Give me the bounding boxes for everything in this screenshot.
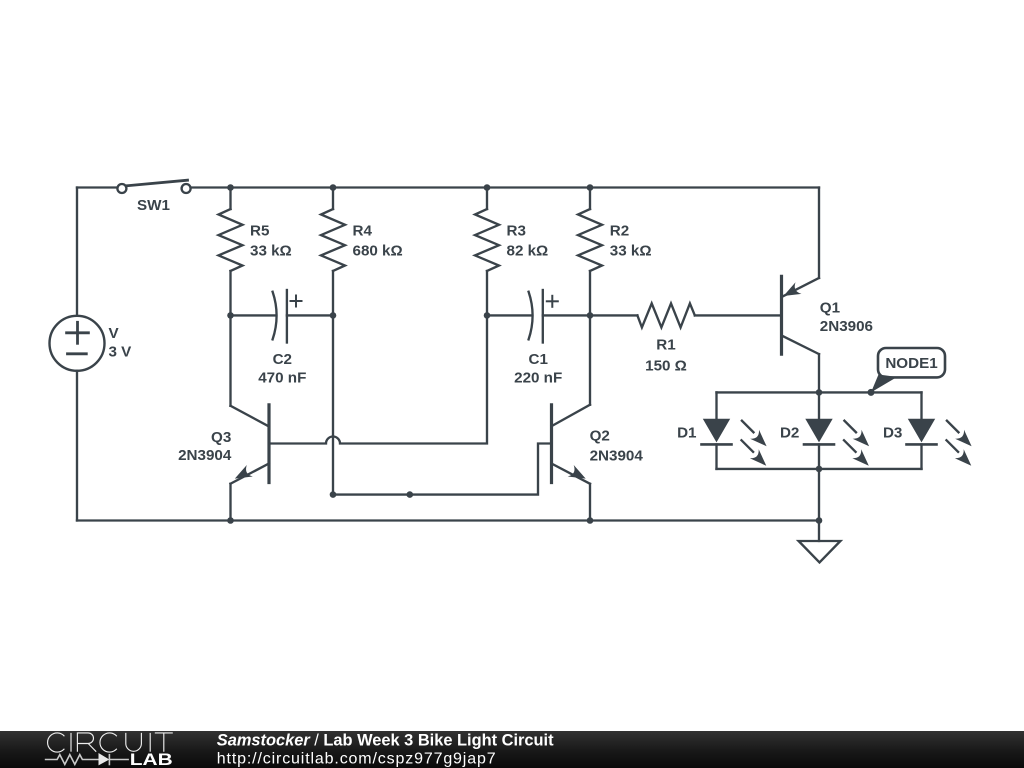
svg-text:2N3904: 2N3904 (590, 447, 644, 464)
junction C2/R4 node (330, 312, 337, 319)
junction Q2 base rail mid (407, 491, 414, 498)
svg-text:Q3: Q3 (211, 429, 231, 446)
wire left column below source (76, 371, 78, 521)
wire top rail right segment (191, 186, 819, 188)
svg-text:220 nF: 220 nF (514, 370, 562, 387)
logo CIRCUIT wordmark (48, 733, 173, 752)
node NODE1 anchor (868, 389, 875, 396)
svg-text:150 Ω: 150 Ω (645, 358, 687, 375)
svg-text:D1: D1 (677, 425, 697, 442)
wire left column above source (76, 188, 78, 316)
node NODE1 callout (871, 348, 945, 392)
junction R2 top (587, 184, 594, 191)
svg-text:33 kΩ: 33 kΩ (610, 242, 652, 259)
transistor Q2 (552, 315, 591, 520)
svg-text:C2: C2 (273, 351, 292, 368)
svg-text:470 nF: 470 nF (258, 370, 306, 387)
wire bottom rail (77, 519, 819, 521)
wire Q3 base to R3/C1 node with hop (269, 315, 487, 443)
capacitor C2 (231, 290, 334, 343)
logo resistor-diode drawing (45, 754, 129, 765)
wire LED center column to ground (818, 469, 820, 541)
svg-text:D2: D2 (780, 425, 799, 442)
wire top rail left segment (77, 186, 117, 188)
svg-text:3 V: 3 V (109, 344, 133, 361)
wire LED bottom rail (717, 468, 922, 470)
junction R3 top (484, 184, 491, 191)
junction R5 top (227, 184, 234, 191)
junction R3/C1 node (484, 312, 491, 319)
svg-text:D3: D3 (883, 425, 902, 442)
svg-text:R4: R4 (353, 223, 373, 240)
svg-text:Q2: Q2 (590, 428, 610, 445)
junction LED bottom rail (816, 466, 823, 473)
transistor Q3 (231, 315, 270, 520)
resistor R5 (219, 188, 243, 316)
svg-text:NODE1: NODE1 (885, 355, 938, 372)
ground (799, 541, 841, 563)
svg-text:SW1: SW1 (137, 197, 170, 214)
resistor R1 (590, 303, 782, 327)
junction R4 top (330, 184, 337, 191)
svg-text:V: V (109, 325, 120, 342)
LED D3 (907, 392, 972, 469)
resistor R3 (475, 188, 499, 316)
junction Q1 collector / LED top rail (816, 389, 823, 396)
LED D2 (804, 392, 869, 469)
svg-text:Samstocker / Lab Week 3 Bike L: Samstocker / Lab Week 3 Bike Light Circu… (217, 731, 554, 749)
svg-text:C1: C1 (528, 351, 548, 368)
svg-text:Q1: Q1 (820, 299, 841, 316)
svg-text:R3: R3 (507, 223, 526, 240)
junction C1/R2/R1 node (587, 312, 594, 319)
capacitor C1 (487, 290, 590, 343)
junction R5/C2 node (227, 312, 234, 319)
switch SW1 (117, 180, 190, 193)
resistor R2 (578, 188, 602, 316)
junction Q3 emitter bottom (227, 517, 234, 524)
svg-text:LAB: LAB (130, 750, 173, 768)
svg-text:680 kΩ: 680 kΩ (353, 242, 403, 259)
wire LED top rail (717, 391, 922, 393)
LED D1 (702, 392, 767, 469)
svg-text:R5: R5 (250, 223, 270, 240)
junction Q2 base rail left (330, 491, 337, 498)
svg-text:2N3906: 2N3906 (820, 318, 873, 335)
resistor R4 (321, 188, 345, 316)
svg-text:R1: R1 (656, 337, 676, 354)
voltage source V (50, 316, 105, 371)
svg-text:http://circuitlab.com/cspz977g: http://circuitlab.com/cspz977g9jap7 (217, 751, 497, 768)
junction Q2 emitter bottom (587, 517, 594, 524)
svg-text:2N3904: 2N3904 (178, 447, 232, 464)
wire R4/C2 node down to Q2 base rail (333, 315, 552, 494)
svg-text:33 kΩ: 33 kΩ (250, 242, 292, 259)
svg-text:82 kΩ: 82 kΩ (507, 242, 549, 259)
svg-text:R2: R2 (610, 223, 629, 240)
transistor Q1 (782, 188, 820, 393)
junction ground node (816, 517, 823, 524)
